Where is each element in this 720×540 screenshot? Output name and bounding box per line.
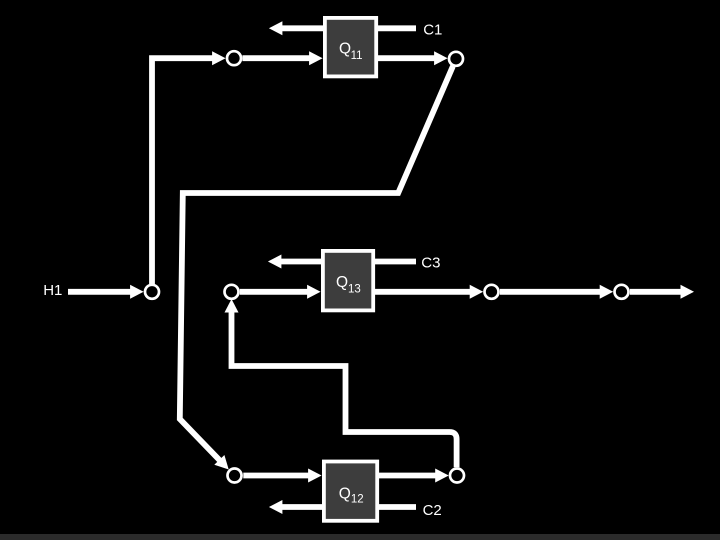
- node N2: [449, 52, 463, 66]
- wire Q11 left output arrow: [269, 21, 323, 35]
- wire node N6 to diagram output: [630, 285, 694, 299]
- svg-text:11: 11: [351, 50, 363, 62]
- wire node N8 up stepped to node N4: [225, 299, 457, 467]
- node N4: [225, 285, 239, 299]
- svg-text:C2: C2: [423, 502, 442, 519]
- wire node N2 down-left then down to node N7: [180, 66, 453, 469]
- wire Q13 output to node N5: [375, 285, 483, 299]
- wire C2 stub: [379, 504, 416, 510]
- wire Q12 output to node N8: [379, 469, 449, 483]
- svg-text:Q: Q: [336, 274, 348, 291]
- wire H1 input: [68, 285, 144, 299]
- wire C1 stub: [378, 25, 416, 31]
- node N3: [145, 285, 159, 299]
- svg-text:Q: Q: [339, 486, 351, 503]
- node N8: [450, 469, 464, 483]
- svg-text:Q: Q: [339, 40, 351, 57]
- wire node N3 up then right to node N1: [152, 51, 226, 284]
- wire node N4 to block Q13 input: [240, 285, 321, 299]
- svg-text:C3: C3: [421, 254, 440, 271]
- wire Q13 left output arrow: [268, 255, 321, 269]
- wire node N7 to block Q12 input: [243, 469, 321, 483]
- block Q13: [323, 251, 373, 311]
- svg-text:C1: C1: [423, 22, 442, 39]
- wire Q11 output to node N2: [378, 51, 448, 65]
- svg-text:12: 12: [351, 494, 364, 506]
- wire node N1 to block Q11 input: [242, 51, 322, 65]
- block Q12: [324, 462, 377, 521]
- block Q11: [325, 18, 376, 77]
- wire C3 stub: [375, 259, 416, 265]
- node N1: [227, 51, 241, 65]
- wire node N5 to node N6: [500, 285, 613, 299]
- svg-text:H1: H1: [43, 282, 62, 299]
- node N7: [228, 469, 242, 483]
- wire Q12 left output arrow: [269, 500, 322, 514]
- node N6: [615, 285, 629, 299]
- svg-text:13: 13: [348, 283, 361, 295]
- bottom edge bar: [0, 534, 720, 540]
- node N5: [485, 285, 499, 299]
